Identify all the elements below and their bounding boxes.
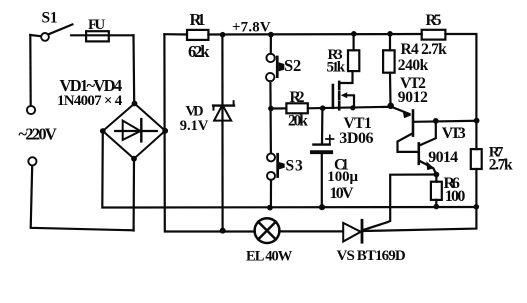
svg-text:9.1V: 9.1V	[180, 118, 209, 134]
svg-text:9014: 9014	[428, 149, 458, 166]
svg-text:R2: R2	[290, 89, 305, 106]
svg-text:VT3: VT3	[442, 125, 466, 142]
svg-text:R1: R1	[190, 10, 206, 29]
svg-text:FU: FU	[88, 17, 105, 33]
svg-text:+7.8V: +7.8V	[232, 19, 271, 35]
svg-text:100μ: 100μ	[327, 169, 358, 185]
svg-text:9012: 9012	[398, 89, 428, 106]
svg-text:R5: R5	[426, 12, 442, 29]
svg-text:2.7k: 2.7k	[489, 157, 513, 174]
svg-text:20k: 20k	[288, 113, 308, 130]
svg-text:100: 100	[445, 188, 466, 205]
svg-text:240k: 240k	[398, 57, 429, 74]
svg-text:51k: 51k	[327, 60, 346, 76]
svg-text:62k: 62k	[188, 42, 210, 61]
svg-text:1N4007 × 4: 1N4007 × 4	[57, 93, 123, 109]
svg-text:S3: S3	[286, 158, 303, 175]
svg-text:3D06: 3D06	[339, 130, 373, 147]
svg-text:S1: S1	[42, 9, 58, 26]
svg-text:~220V: ~220V	[19, 125, 57, 144]
svg-text:S2: S2	[284, 56, 301, 75]
svg-text:VS BT169D: VS BT169D	[337, 248, 406, 264]
svg-text:R4 2.7k: R4 2.7k	[401, 41, 448, 58]
svg-text:EL 40W: EL 40W	[246, 249, 293, 265]
svg-text:10V: 10V	[330, 185, 354, 202]
